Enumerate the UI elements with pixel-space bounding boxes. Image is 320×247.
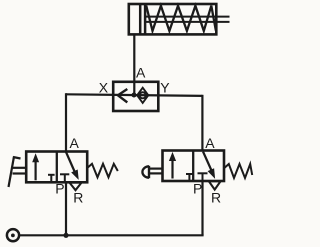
valve V1 blocked P port T [60,173,69,175]
valve V1 left box flow arrow [34,158,36,180]
valve V1 return spring [88,164,118,178]
svg-text:P: P [193,181,202,197]
cylinder C1 piston rod [146,17,230,22]
valve V2 exhaust R triangle [209,181,221,189]
valve V1 left box blocked port T [48,174,55,176]
valve V2 left box flow arrow [171,157,173,179]
wire cylinder port to shuttle valve A [133,34,135,95]
valve V1 A to R flow diagonal [66,152,75,173]
shuttle valve U1 body [113,82,158,111]
junction node supply bus to valve V1 [63,233,68,238]
svg-text:R: R [73,190,83,206]
svg-text:X: X [99,80,109,96]
valve V2 A to R flow diagonal [203,152,212,171]
wire shuttle X to valve V1 port A [65,93,67,151]
svg-text:A: A [205,135,215,151]
valve V1 position divider [56,152,58,183]
valve V2 push button actuator [142,166,162,178]
wire supply bus [19,234,204,236]
svg-text:A: A [70,135,80,151]
valve V1 exhaust R triangle [70,183,82,191]
valve V2 position divider [192,151,194,182]
wire valve V1 P port to supply bus [65,182,67,235]
cylinder C1 return spring [146,6,216,31]
valve V2 body [163,151,225,182]
svg-text:A: A [136,65,146,81]
shuttle valve U1 ball dot [140,92,146,98]
valve V1 body [26,152,87,183]
shuttle valve U1 left seat chevron [118,89,127,102]
valve V1 pedal actuator [9,157,27,188]
valve V2 blocked P port T [198,172,208,174]
cylinder C1 piston [140,4,145,34]
valve V2 return spring [224,164,252,178]
svg-text:P: P [55,181,64,197]
wire X line through shuttle valve to Y [66,94,202,96]
wire shuttle Y to valve V2 port A [201,95,203,151]
junction node at shuttle A [132,93,137,98]
svg-text:Y: Y [160,80,170,96]
wire valve V2 P port to supply bus [201,181,203,235]
cylinder C1 body [129,4,217,34]
compressed air source [7,229,19,241]
svg-text:R: R [211,190,221,206]
valve V2 left box blocked port T [186,173,193,175]
shuttle valve U1 ball diamond [137,88,148,103]
